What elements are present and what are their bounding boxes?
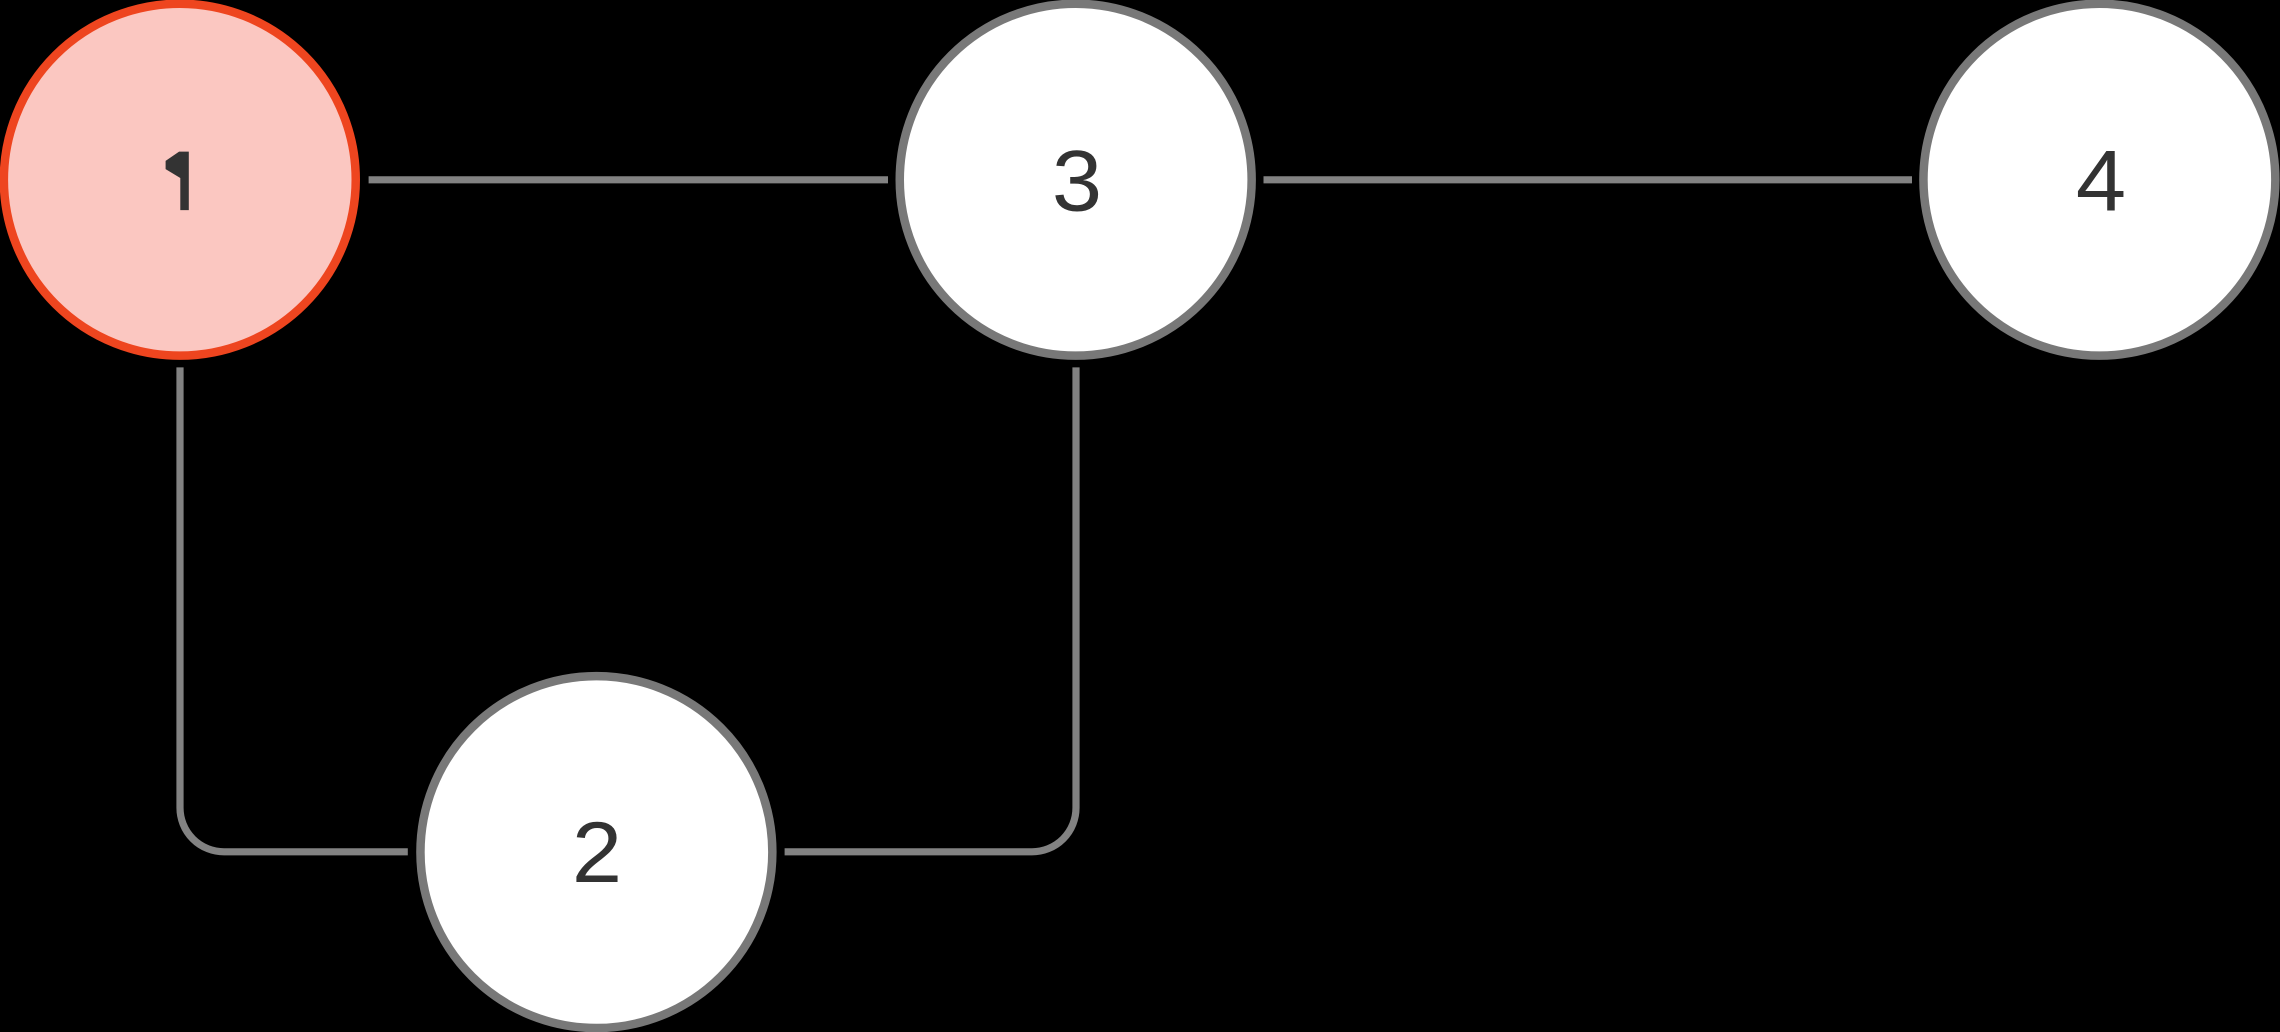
wire edge 1-2 bbox=[180, 367, 408, 851]
svg-text:3: 3 bbox=[1052, 133, 1102, 230]
node 3 bbox=[900, 4, 1252, 356]
wire edge 3-4 bbox=[1264, 176, 1913, 183]
svg-text:2: 2 bbox=[572, 804, 622, 901]
node 4 bbox=[1923, 4, 2275, 356]
wire edge 2-3 bbox=[785, 367, 1076, 851]
node 1 (highlighted) bbox=[4, 4, 356, 356]
wire edge 1-3 bbox=[369, 176, 888, 183]
svg-text:4: 4 bbox=[2076, 132, 2126, 229]
node 2 bbox=[420, 676, 772, 1028]
